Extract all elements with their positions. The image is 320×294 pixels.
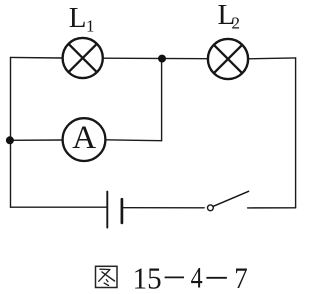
wire top-right horizontal: [249, 57, 296, 60]
wire node drop vertical: [161, 59, 163, 141]
wire middle branch right (ammeter to corner): [106, 139, 162, 142]
switch blade: [213, 191, 249, 206]
battery short plate (-): [121, 199, 124, 223]
svg-text:L: L: [69, 2, 87, 34]
lamp L1: [63, 38, 103, 78]
caption character 图: [96, 266, 118, 287]
wire bottom middle (battery to switch): [123, 207, 204, 209]
svg-text:15: 15: [133, 260, 162, 294]
ammeter A1: [63, 118, 106, 161]
wire bottom-right horizontal: [248, 207, 296, 209]
wire top-left horizontal: [11, 56, 62, 59]
wire right vertical: [295, 58, 297, 208]
wire bottom-left horizontal: [11, 206, 107, 208]
svg-text:1: 1: [86, 17, 95, 36]
label L2: [218, 0, 241, 33]
label L1: [69, 2, 95, 35]
switch S1: [208, 191, 249, 210]
wire left vertical: [10, 57, 12, 207]
svg-text:A: A: [72, 120, 96, 156]
svg-text:2: 2: [232, 14, 241, 33]
battery B1: [107, 192, 122, 228]
caption text 15-4-7: [133, 260, 248, 294]
battery long plate (+): [106, 192, 108, 228]
svg-text:7: 7: [234, 262, 248, 294]
svg-text:4: 4: [191, 262, 203, 294]
wire middle branch left (node to ammeter): [10, 139, 63, 141]
wire top middle (L1 to L2 through node): [104, 57, 208, 60]
lamp L2: [208, 39, 248, 79]
node A (junction dot on top rail): [158, 55, 166, 63]
node B (junction dot on left rail): [6, 136, 14, 144]
